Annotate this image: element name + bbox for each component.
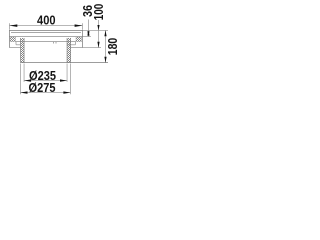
dimension diameter 275	[20, 64, 70, 95]
frame left skirt	[9, 42, 20, 48]
dimension 400	[9, 23, 82, 30]
pipe left wall	[20, 38, 24, 63]
cover rib bottom	[16, 41, 76, 43]
cover underside	[9, 36, 83, 38]
cover top surface	[9, 29, 83, 31]
dimension diameter 235	[24, 64, 67, 82]
pipe bottom edge with 180 extension	[20, 62, 108, 64]
frame right skirt	[67, 42, 82, 48]
cover top inner edge	[11, 31, 81, 33]
dimension 180	[82, 30, 108, 62]
svg-text:Ø275: Ø275	[29, 81, 56, 95]
svg-text:400: 400	[37, 14, 56, 28]
svg-text:100: 100	[92, 4, 106, 21]
pipe right wall	[67, 38, 71, 63]
svg-text:180: 180	[106, 38, 120, 56]
cover left rim	[8, 30, 10, 47]
dimension 36	[82, 20, 90, 37]
frame right flange hatch	[76, 37, 82, 42]
frame left flange hatch	[10, 37, 16, 42]
dimension 100	[82, 20, 101, 48]
cover right rim	[81, 30, 83, 47]
pick hole ticks	[54, 42, 57, 44]
